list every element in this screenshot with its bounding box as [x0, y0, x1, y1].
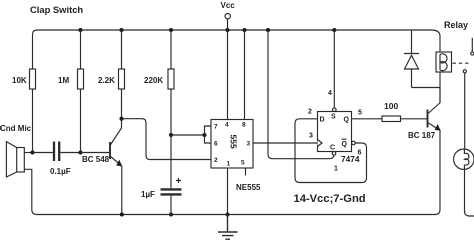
resistor 1M	[78, 69, 84, 89]
relay coil	[440, 54, 447, 71]
node dot bracket	[202, 133, 206, 137]
wire 555 pin1 to ground	[227, 168, 229, 215]
clock triangle	[318, 140, 323, 147]
Qbar overline	[342, 138, 347, 140]
wire 220K node down to 1uF	[170, 135, 172, 188]
capacitor 1uF plus sign	[176, 178, 181, 183]
svg-text:7474: 7474	[341, 154, 360, 164]
wire mic node to cap	[33, 152, 53, 154]
svg-text:C: C	[330, 145, 335, 152]
node dot rail-7474 pin4	[332, 28, 336, 32]
wire 7474 pin4 S drop	[333, 30, 335, 108]
wire 100 to BC187 base	[401, 118, 428, 120]
bubble S pin	[333, 108, 337, 112]
svg-text:5: 5	[358, 110, 362, 117]
wire 555 pin4 drop	[227, 30, 229, 120]
svg-text:10K: 10K	[12, 76, 27, 85]
node dot 220K junction	[169, 133, 173, 137]
node dot emitter-rail	[120, 212, 124, 216]
svg-text:14-Vcc;7-Gnd: 14-Vcc;7-Gnd	[294, 193, 366, 205]
svg-text:3: 3	[247, 141, 251, 148]
wire base wire	[81, 152, 111, 154]
svg-text:1µF: 1µF	[141, 190, 155, 199]
wire upper contact	[471, 38, 473, 52]
wire Vcc stub	[227, 19, 229, 30]
wire 1M column	[80, 30, 82, 153]
svg-text:D: D	[320, 117, 325, 124]
pin numbers 7474	[308, 90, 362, 173]
node dot pin1-rail	[225, 212, 229, 216]
contact lower terminal	[463, 70, 466, 73]
pin labels 555	[214, 122, 251, 168]
node dot collector junction	[119, 117, 123, 121]
wire 2.2K column	[121, 30, 123, 119]
svg-text:2: 2	[214, 157, 218, 164]
svg-text:0.1µF: 0.1µF	[50, 167, 71, 176]
ground symbol	[218, 215, 238, 240]
svg-text:Q: Q	[342, 141, 348, 148]
wire lamp to bottom right exit	[465, 169, 474, 216]
node dot rail-7474 CLR feed	[266, 28, 270, 32]
svg-text:4: 4	[225, 122, 229, 129]
svg-text:Relay: Relay	[444, 20, 468, 30]
svg-text:100: 100	[384, 101, 398, 111]
svg-text:3: 3	[309, 133, 313, 140]
wire 220K column	[170, 30, 172, 135]
svg-text:BC 548: BC 548	[82, 155, 110, 164]
condenser mic body	[17, 148, 25, 173]
lamp	[454, 149, 474, 169]
relay contact dashed link	[453, 62, 471, 64]
svg-text:Vcc: Vcc	[221, 1, 236, 10]
svg-text:220K: 220K	[144, 76, 163, 85]
contact upper terminal	[471, 52, 474, 55]
IC NE555 box	[211, 120, 253, 169]
svg-text:Q: Q	[344, 117, 350, 124]
wire mic bottom to ground rail	[24, 169, 37, 214]
relay coil box	[436, 52, 452, 72]
svg-text:2.2K: 2.2K	[98, 76, 115, 85]
wire pins 7-6 bracket	[205, 126, 212, 143]
wire lower contact to lamp	[464, 73, 466, 149]
svg-text:Clap Switch: Clap Switch	[30, 4, 83, 15]
resistor 10K	[30, 69, 36, 89]
bubble Qbar pin	[352, 141, 356, 145]
svg-text:NE555: NE555	[236, 183, 261, 192]
svg-text:4: 4	[328, 90, 332, 97]
pin letters 7474	[320, 114, 350, 152]
svg-text:8: 8	[242, 122, 246, 129]
svg-text:1: 1	[227, 161, 231, 168]
wire top Vcc rail	[33, 30, 441, 36]
wire 1uF to ground rail	[170, 196, 172, 215]
node dot 1uF-rail	[169, 212, 173, 216]
IC 7474 box	[318, 112, 352, 152]
wire left rail	[32, 35, 34, 153]
node dot rail-1M	[78, 28, 82, 32]
bullet before Cnd Mic	[0, 127, 1, 130]
bubble CLR pin	[332, 152, 336, 156]
transistor BC187	[428, 88, 441, 215]
transistor BC548	[110, 119, 122, 215]
svg-text:S: S	[331, 114, 336, 121]
wire Vcc to 7474 pin1 CLR	[268, 30, 334, 159]
svg-text:BC 187: BC 187	[408, 131, 436, 140]
wire relay top	[439, 36, 441, 52]
resistor 220K	[168, 69, 174, 89]
svg-text:Cnd Mic: Cnd Mic	[0, 124, 32, 133]
wire relay bottom	[439, 72, 441, 103]
node dot mic junction	[30, 150, 34, 154]
condenser mic cone	[6, 142, 16, 177]
diode freewheel	[404, 30, 419, 88]
wire cap to base node	[60, 152, 80, 154]
svg-text:1M: 1M	[58, 76, 69, 85]
wire mic top stub	[24, 152, 32, 154]
wire 555 pin3 to 7474 clock	[253, 142, 318, 144]
wire 220K node to 555 pins 7-6	[171, 134, 205, 136]
capacitor 0.1uF	[54, 142, 59, 162]
node dot rail-2.2K	[119, 28, 123, 32]
svg-text:6: 6	[214, 141, 218, 148]
node dot base junction	[78, 150, 82, 154]
svg-text:7: 7	[214, 124, 218, 131]
wire 555 pin5 stub	[245, 168, 247, 176]
resistor 2.2K	[119, 69, 125, 89]
node dot rail-555 pin8	[242, 28, 246, 32]
wire diode bottom to relay bottom	[412, 87, 441, 89]
svg-text:1: 1	[334, 166, 338, 173]
resistor 100	[382, 116, 401, 122]
svg-text:555: 555	[229, 135, 239, 149]
Vcc terminal	[225, 14, 230, 19]
node dot rail-555 pin4	[225, 28, 229, 32]
wire D to Qbar loop	[295, 119, 367, 183]
capacitor 1uF	[161, 189, 182, 194]
svg-text:5: 5	[241, 160, 245, 167]
wire collector to 555 pin2	[122, 119, 212, 160]
wire Q to 100 resistor	[352, 118, 383, 120]
node dot rail-220K	[169, 28, 173, 32]
svg-text:2: 2	[308, 109, 312, 116]
wire 555 pin8 drop	[244, 30, 246, 120]
wire ground rail	[37, 214, 435, 216]
